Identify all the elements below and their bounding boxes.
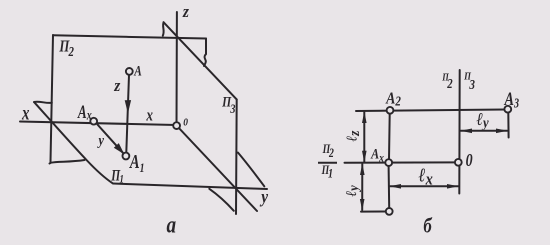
label x axis left — [21, 101, 29, 124]
label lx — [419, 164, 433, 189]
axis y — [177, 126, 258, 212]
dimension ly left line — [361, 164, 363, 210]
svg-text:Ax: Ax — [77, 103, 92, 123]
label П3 top — [463, 71, 475, 92]
svg-text:z: z — [113, 75, 121, 95]
svg-text:y: y — [97, 132, 104, 148]
plane П3 right edge — [235, 99, 238, 214]
plane П1 torn corner flag top-left — [34, 102, 52, 103]
line A3 vertical — [507, 112, 509, 137]
plane П1 left edge — [34, 102, 112, 183]
label O flat — [466, 152, 473, 171]
svg-text:а: а — [167, 212, 177, 239]
svg-text:П3: П3 — [463, 71, 475, 92]
plane П2 right torn edge — [204, 39, 206, 67]
point A — [126, 68, 133, 75]
svg-text:0: 0 — [183, 117, 188, 129]
label z axis top — [182, 1, 190, 21]
label y axis — [259, 186, 268, 206]
svg-text:x: x — [21, 101, 29, 124]
caption б — [423, 215, 433, 238]
point O origin — [173, 122, 180, 129]
plane П2 left edge — [51, 35, 54, 162]
label П2 top — [441, 73, 452, 92]
point A2 — [387, 107, 394, 114]
svg-text:y: y — [259, 186, 268, 206]
line Ax to O — [345, 161, 456, 163]
point A3 — [504, 106, 511, 113]
label A1 — [129, 151, 144, 175]
label П2 plane — [59, 38, 74, 59]
svg-text:П1: П1 — [321, 164, 333, 181]
fraction П1 — [321, 164, 333, 181]
label x axis near O — [146, 107, 154, 125]
label A — [133, 62, 142, 79]
svg-text:0: 0 — [466, 152, 473, 171]
arrowhead of z coordinate (A down) — [125, 100, 131, 113]
arrow ly-left down — [360, 199, 365, 211]
arrow lz up — [362, 111, 367, 123]
svg-text:П2: П2 — [59, 38, 74, 59]
projection line A to A1 — [126, 75, 129, 153]
arrow lx right — [447, 184, 459, 189]
axis z — [176, 12, 178, 126]
arrow ly-left up — [360, 163, 365, 175]
svg-text:A: A — [133, 62, 142, 79]
dimension lx line — [390, 185, 458, 187]
svg-text:z: z — [182, 1, 190, 21]
projection line Ax to A1 — [95, 122, 124, 154]
label П1 plane — [110, 168, 123, 186]
svg-text:П2: П2 — [441, 73, 452, 92]
svg-text:ℓz: ℓz — [344, 130, 363, 141]
point A1 (flat) — [386, 208, 393, 215]
label A2 — [385, 89, 401, 108]
fraction П2 — [322, 143, 334, 160]
svg-text:б: б — [423, 215, 433, 238]
point A1 — [123, 153, 130, 160]
line A1 horizontal — [361, 211, 386, 213]
caption a — [167, 212, 177, 239]
arrow ly-right left — [460, 129, 472, 134]
dimension lz line — [363, 112, 365, 162]
label Ax — [77, 103, 92, 123]
label A3 — [504, 88, 519, 111]
svg-text:x: x — [146, 107, 154, 125]
arrow lx left — [389, 184, 401, 189]
plane П3 top edge — [164, 22, 237, 99]
plane П1 torn corner right — [238, 153, 264, 187]
arrowhead of y coordinate (Ax to A1) — [114, 143, 125, 154]
svg-text:A2: A2 — [385, 89, 401, 108]
label O — [183, 117, 188, 129]
line A2 to Ax — [388, 114, 391, 159]
plane П1 bottom edge — [113, 184, 267, 190]
plane П3 torn corner flag — [162, 22, 165, 35]
axis x — [20, 122, 177, 126]
line A2 to A3 horizontal — [356, 110, 505, 112]
label lz rotated — [344, 130, 363, 141]
point Ax (flat) — [385, 159, 392, 166]
svg-text:ℓy: ℓy — [477, 109, 490, 132]
arrow lz down — [362, 151, 367, 163]
label Ax flat — [370, 145, 384, 165]
plane П2 bottom corner foot — [50, 162, 51, 165]
fraction bar — [318, 162, 337, 164]
svg-text:A3: A3 — [504, 88, 519, 111]
svg-text:A1: A1 — [129, 151, 144, 175]
axis П2/П3 vertical — [458, 70, 460, 194]
dimension ly right line — [461, 130, 507, 132]
svg-text:П1: П1 — [110, 168, 123, 186]
point O (flat) — [455, 159, 462, 166]
arrow ly-right right — [496, 129, 508, 134]
svg-text:ℓx: ℓx — [419, 164, 433, 189]
plane П2 top edge — [53, 35, 206, 38]
label ly left rotated — [343, 185, 361, 196]
label ly right — [477, 109, 490, 132]
svg-text:ℓy: ℓy — [343, 185, 361, 196]
line Ax to A1 — [388, 166, 391, 208]
plane П3 torn bottom edge — [209, 189, 234, 211]
point Ax — [90, 118, 97, 125]
label z coordinate — [113, 75, 121, 95]
plane П2 bottom edge with tear — [51, 160, 85, 163]
label y coordinate — [97, 132, 104, 148]
svg-text:П2: П2 — [322, 143, 334, 160]
label П3 plane — [221, 93, 235, 116]
